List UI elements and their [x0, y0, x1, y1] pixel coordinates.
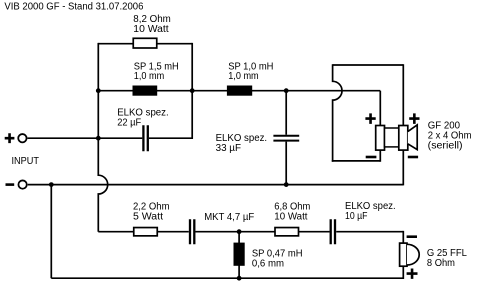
svg-text:10 µF: 10 µF [345, 211, 368, 222]
tweeter G 25 FFL body [400, 243, 407, 266]
plus terminal circle [18, 134, 26, 142]
wire row E (tweeter branch) [98, 231, 403, 233]
wire woofer loop bottom [332, 160, 381, 162]
resistor R2 2,2 Ohm [134, 228, 158, 236]
node junction (51.3,184.6) [49, 182, 54, 187]
wire vertical x=192.2 (A to C) [191, 43, 193, 139]
woofer plus sign 2 [409, 113, 419, 124]
inductor L2 SP 1,0 mH [227, 86, 252, 96]
tweeter plus sign [407, 269, 418, 279]
speaker GF 200 voice coil 2 [399, 126, 408, 151]
node junction (98.3,90.7) [96, 88, 101, 93]
tweeter minus sign [407, 235, 417, 238]
speaker GF 200 magnet box [385, 128, 399, 147]
wire row A (top resistor branch) [98, 43, 192, 45]
resistor R1 8,2 Ohm [133, 38, 157, 48]
wire woofer loop top [333, 64, 404, 66]
inductor L3 SP 0,47 mH [234, 243, 245, 266]
svg-text:33 µF: 33 µF [216, 143, 241, 154]
woofer minus sign 1 [366, 156, 377, 159]
tweeter dome [407, 244, 419, 265]
speaker GF 200 cone [408, 125, 417, 150]
capacitor C1 ELKO spez. 22 uF [143, 125, 147, 151]
capacitor C4 ELKO spez. 10 uF [331, 219, 335, 244]
wire vertical x=403.3 (loop top to coil2, coil2 down to minus rail) [402, 64, 404, 185]
capacitor C3 MKT 4,7 uF [190, 219, 194, 244]
wire row B (inductor branch) [98, 90, 380, 92]
svg-text:MKT 4,7 µF: MKT 4,7 µF [204, 212, 254, 223]
resistor R3 6,8 Ohm [275, 228, 299, 236]
minus terminal circle [18, 180, 26, 188]
capacitor C2 ELKO spez. 33 uF (vertical branch x=286.2) [285, 91, 287, 185]
wire vertical x=403.3 (E down to tweeter, tweeter to F) [402, 231, 404, 279]
speaker GF 200 voice coil 1 [376, 126, 385, 151]
inductor L1 SP 1,5 mH [133, 86, 158, 96]
svg-text:1,0 mm: 1,0 mm [134, 71, 165, 82]
node junction (98.3,138.2) [96, 136, 101, 141]
node junction (192.2,90.7) [190, 88, 195, 93]
svg-text:1,0 mm: 1,0 mm [228, 71, 259, 82]
svg-text:10 Watt: 10 Watt [274, 212, 307, 223]
wire vertical x=332.6 with hop over row B [333, 64, 342, 162]
woofer minus sign 2 [408, 156, 418, 159]
node junction (286.2,184.6) [284, 182, 289, 187]
wire vertical x=51.3 (D down to F) [50, 185, 52, 279]
wire row C (plus rail) [28, 137, 193, 139]
svg-text:8 Ohm: 8 Ohm [427, 258, 455, 269]
svg-text:(seriell): (seriell) [428, 141, 463, 152]
wire row D (minus rail) [28, 184, 404, 186]
plus terminal symbol [5, 133, 15, 143]
wire vertical x=380.3 (B down to coil1, coil1 to loop bottom) [379, 91, 381, 162]
svg-text:INPUT: INPUT [12, 156, 40, 167]
node junction (286.2,90.7) [284, 88, 289, 93]
minus terminal symbol [6, 183, 15, 186]
node junction (239.1,278.2) [237, 276, 242, 281]
node junction (239.1,231.7) [237, 229, 242, 234]
svg-text:0,6 mm: 0,6 mm [252, 259, 284, 270]
svg-text:22 µF: 22 µF [117, 118, 141, 129]
wire vertical x=98.3 (A to E with hop over minus rail) [98, 43, 107, 232]
wire row F (bottom rail) [51, 277, 403, 279]
svg-text:VIB 2000 GF - Stand 31.07.2006: VIB 2000 GF - Stand 31.07.2006 [4, 2, 144, 13]
woofer plus sign 1 [365, 113, 375, 124]
svg-text:10 Watt: 10 Watt [133, 24, 169, 35]
svg-text:5 Watt: 5 Watt [133, 212, 163, 223]
wire vertical x=239.1 (E down to F through L3) [238, 232, 240, 279]
